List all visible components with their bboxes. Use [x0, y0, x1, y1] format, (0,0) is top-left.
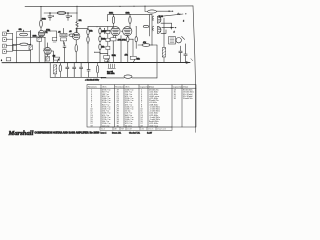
resistor R21	[135, 26, 137, 48]
svg-text:25k: 25k	[137, 58, 140, 60]
wire grid drop	[16, 37, 18, 63]
potentiometer VR3	[130, 39, 140, 62]
grid network box	[17, 30, 31, 38]
svg-text:205-245v: 205-245v	[107, 73, 115, 75]
resistor R8	[69, 34, 75, 36]
wire input column	[13, 33, 17, 51]
capacitor C9	[106, 42, 110, 54]
svg-text:+ 32+32mfd 350v: + 32+32mfd 350v	[85, 79, 99, 81]
resistor R28	[96, 63, 98, 78]
triode V1b	[44, 43, 53, 63]
wire PI tail	[121, 31, 133, 39]
svg-text:Drawn J.M.: Drawn J.M.	[112, 133, 122, 135]
resistor R6	[46, 55, 50, 61]
node A row	[44, 30, 57, 32]
svg-text:47k: 47k	[125, 54, 128, 56]
triode V1a	[38, 30, 47, 36]
wire V5 output	[162, 27, 176, 29]
svg-text:Value: Value	[183, 86, 189, 88]
resistor R10	[87, 29, 89, 35]
svg-text:+: +	[53, 16, 54, 18]
wire bias loop	[13, 44, 31, 50]
svg-text:Value: Value	[149, 86, 155, 88]
svg-text:d: d	[178, 14, 179, 16]
svg-text:chk: chk	[141, 129, 144, 131]
capacitor C23	[87, 63, 90, 78]
capacitor C22	[80, 63, 83, 77]
phase inverter loop	[108, 15, 153, 21]
resistor R5	[29, 45, 32, 50]
resistor R31	[76, 22, 78, 33]
svg-text:1.6.67: 1.6.67	[127, 129, 132, 131]
wire OT column	[163, 18, 165, 48]
filter sub-bus	[50, 63, 106, 78]
input jack J1	[3, 32, 13, 36]
svg-text:3k: 3k	[7, 31, 9, 33]
svg-text:.02: .02	[58, 32, 61, 34]
resistor R27	[59, 63, 61, 78]
resistor R19	[111, 36, 116, 63]
capacitor C16	[66, 13, 72, 21]
triode V2	[73, 28, 80, 40]
wire V3a cathode	[120, 36, 122, 63]
resistor R11	[87, 37, 89, 43]
svg-text:No 10/30: No 10/30	[90, 132, 101, 135]
svg-text:500k: 500k	[112, 55, 116, 57]
voltage selector S2	[107, 64, 115, 75]
svg-text:470k: 470k	[46, 29, 50, 31]
resistor R24	[162, 48, 165, 63]
frame right border	[193, 6, 196, 127]
svg-text:d: d	[183, 21, 184, 23]
capacitor C13	[179, 46, 182, 62]
table footer row	[100, 127, 196, 132]
svg-text:V1: V1	[45, 32, 47, 34]
HT supply bus	[25, 5, 193, 8]
table rows	[90, 89, 194, 128]
triode V3a	[111, 27, 120, 36]
wire plate row	[31, 37, 45, 39]
svg-text:56k: 56k	[90, 30, 93, 32]
svg-text:100k: 100k	[42, 19, 46, 21]
svg-text:1.6.67: 1.6.67	[147, 133, 152, 135]
cross coupling loop	[161, 23, 172, 33]
capacitor C8	[106, 34, 110, 42]
svg-text:68k: 68k	[19, 29, 22, 31]
svg-text:Ohm: Ohm	[102, 86, 107, 88]
capacitor C20	[66, 63, 69, 77]
input jack J3	[3, 44, 13, 48]
mains link	[101, 77, 124, 78]
resistor R14	[99, 42, 101, 54]
triode V3b	[123, 27, 132, 36]
capacitor C7	[106, 27, 110, 34]
capacitor C14	[184, 44, 187, 63]
svg-text:.68: .68	[69, 31, 72, 33]
resistor R4	[37, 37, 42, 63]
resistor R13	[99, 34, 101, 42]
svg-text:10k: 10k	[79, 20, 82, 22]
capacitor C5	[63, 43, 66, 63]
wire drop screen	[76, 6, 78, 21]
svg-text:50mfd 50v: 50mfd 50v	[183, 98, 194, 100]
pentode V5	[152, 26, 161, 34]
svg-text:Capacitors: Capacitors	[173, 85, 183, 88]
speaker label	[1, 58, 11, 62]
svg-text:Resistors: Resistors	[88, 85, 97, 88]
svg-text:220k: 220k	[33, 35, 37, 37]
resistor R12	[99, 27, 101, 34]
wire V2 plate link	[76, 27, 88, 29]
svg-text:Drn ch: Drn ch	[148, 129, 153, 131]
parts list table	[87, 85, 196, 127]
svg-text:Marshall: Marshall	[8, 130, 34, 137]
ground bus arrow	[186, 59, 193, 64]
capacitor C2	[44, 38, 47, 63]
wire mixer column	[56, 31, 58, 41]
resistor R23	[143, 25, 149, 27]
input jack J4	[3, 50, 13, 54]
svg-text:Issue 4: Issue 4	[101, 133, 107, 135]
resistor R2	[13, 43, 31, 45]
svg-text:Drawn and: Drawn and	[157, 129, 166, 131]
mains link right	[132, 77, 157, 79]
potentiometer VR2	[94, 52, 116, 63]
fuse F1	[144, 6, 173, 13]
svg-text:4: 4	[1, 60, 2, 62]
resistor R30	[57, 12, 66, 15]
table headers	[88, 85, 189, 88]
svg-text:d: d	[174, 32, 175, 34]
potentiometer VR1	[53, 56, 60, 63]
svg-text:Resistors: Resistors	[115, 85, 124, 88]
capacitor C21	[73, 63, 76, 77]
svg-text:500k: 500k	[102, 39, 106, 41]
fuse F2	[124, 75, 132, 78]
tone bus	[88, 26, 113, 28]
svg-text:COMPRESSION GUITAR AND BASS AM: COMPRESSION GUITAR AND BASS AMPLIFIER	[35, 132, 89, 135]
resistor R22	[138, 44, 157, 47]
pentode V4	[152, 16, 161, 24]
resistor R20	[127, 37, 129, 63]
resistor R26	[54, 65, 57, 77]
resistor R9	[75, 40, 77, 63]
wire grid column	[149, 15, 151, 37]
wire V1 cathode column	[30, 30, 32, 62]
wire drop V1 plate	[40, 7, 42, 31]
capacitor C6	[52, 38, 57, 42]
wire feedback column	[87, 27, 89, 63]
wire V4 output	[162, 13, 187, 16]
svg-text:25k: 25k	[102, 47, 105, 49]
svg-text:100k: 100k	[109, 13, 113, 15]
resistor R3	[40, 20, 43, 27]
input jack J2	[3, 38, 13, 42]
resistor R18	[129, 15, 131, 27]
svg-text:250k: 250k	[102, 31, 106, 33]
resistor R17	[112, 15, 114, 27]
svg-text:+: +	[71, 16, 72, 18]
wire tone right column	[112, 27, 114, 58]
svg-text:100k: 100k	[126, 13, 130, 15]
wire PI right leg	[151, 15, 153, 45]
svg-text:Checked T.M.: Checked T.M.	[129, 133, 140, 135]
svg-text:Ohm: Ohm	[125, 86, 130, 88]
svg-text:Iss 4: Iss 4	[101, 129, 105, 131]
svg-text:18: 18	[174, 98, 177, 100]
capacitor C4	[61, 28, 67, 44]
capacitor C15	[48, 13, 54, 21]
capacitor C3	[60, 33, 67, 37]
transformer T1	[169, 36, 185, 44]
decoupling bus	[44, 12, 77, 14]
wire NFB column	[156, 45, 158, 78]
capacitor C10	[103, 28, 111, 34]
ground bus	[2, 61, 190, 63]
svg-text:470k 470k: 470k 470k	[118, 39, 126, 41]
